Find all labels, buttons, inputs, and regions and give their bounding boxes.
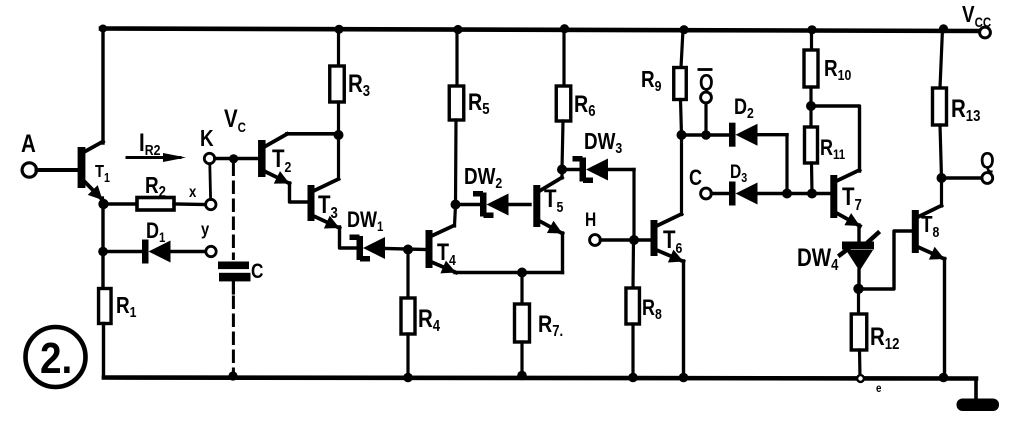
transistor T2 (258, 140, 266, 177)
svg-text:y: y (201, 220, 210, 240)
node junction R7 tap (517, 268, 527, 278)
svg-text:H: H (585, 209, 596, 231)
wire R10 node to T7 collector (811, 106, 860, 171)
ground symbol (974, 379, 978, 401)
svg-text:K: K (200, 126, 214, 151)
svg-text:x: x (189, 184, 197, 201)
transistor T5 (533, 185, 540, 227)
transistor T8 (912, 210, 919, 253)
wire D2 down to D3 row (785, 135, 788, 194)
svg-text:Q: Q (980, 148, 995, 173)
wire dashed capacitor to ground rail (232, 281, 235, 293)
transistor T6 (651, 220, 658, 256)
node junction DW4/R12/T8 base (853, 284, 863, 294)
node junction H/DW3/R8 (629, 235, 639, 245)
wire K to x (208, 164, 212, 199)
wire Vcc top rail (101, 29, 980, 32)
svg-text:A: A (21, 129, 36, 157)
node junction D2/D3 (782, 189, 792, 199)
node junction cap/rail (228, 371, 237, 380)
node junction DW1/R4/T4 base (403, 245, 413, 255)
node junction R11 tap (807, 189, 817, 199)
transistor T7 (830, 175, 837, 218)
wire T4 collector to R5 (455, 205, 456, 226)
transistor T3 (308, 185, 315, 221)
wire DW3 to H node (632, 170, 635, 241)
node junction Vc/C dashed tap (229, 154, 238, 163)
wire T5 collector to R6/DW3 node (560, 170, 563, 178)
wire T6 collector up to R9 node (680, 135, 683, 215)
node junction R10/R11/T7 collector (806, 101, 816, 111)
svg-text:C: C (251, 261, 264, 284)
wire T3 emitter to DW1 (340, 227, 357, 248)
svg-text:C: C (689, 166, 702, 190)
wire DW4 node to T8 base (859, 231, 912, 289)
transistor T1 (78, 147, 86, 188)
wire K to T2 base (215, 157, 258, 160)
node junction R5/T4 collector/DW2 (451, 200, 461, 210)
wire T8 collector to Q node (940, 178, 943, 206)
node junction D1 tap (98, 247, 108, 257)
node junction R9/T6/Qbar (677, 130, 687, 140)
wire A to T1 base (37, 168, 80, 172)
wire T2 emitter to T3 base (290, 183, 309, 202)
capacitor C (218, 262, 249, 270)
wire node to D2 (682, 133, 730, 136)
node junction R12/rail (857, 375, 864, 382)
svg-text:2.: 2. (40, 333, 72, 383)
wire ground bottom rail (104, 378, 976, 379)
wire Qbar down to D2 row (704, 103, 707, 135)
wire T4/T5 emitter bus (455, 271, 563, 274)
wire T6 emitter to rail (682, 261, 685, 378)
wire dashed tap to capacitor (232, 164, 235, 259)
node junction Q tap (937, 173, 947, 183)
svg-text:e: e (876, 382, 881, 395)
wire T5 emitter down (561, 233, 564, 273)
node junction T1/R2/D1/R1 (98, 199, 108, 209)
figure label circled 2 (26, 327, 86, 387)
wire T1 emitter to node (101, 198, 105, 204)
node junction T2/T3 collectors with R3 (334, 130, 344, 140)
transistor T4 (426, 230, 433, 268)
wire T8 emitter to rail (943, 259, 946, 378)
node junction R6/T5/DW3 (557, 165, 567, 175)
wire left vertical T1 collector to rail (101, 29, 104, 144)
wire H to T6 base (600, 238, 651, 241)
